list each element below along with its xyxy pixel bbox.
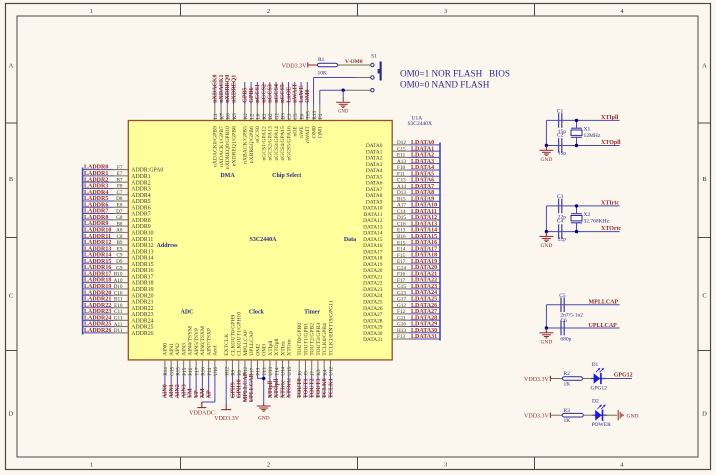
svg-text:L3: L3	[213, 113, 219, 119]
svg-text:LDATA2: LDATA2	[411, 153, 434, 159]
svg-text:ADDR11: ADDR11	[131, 237, 153, 243]
svg-text:DATA6: DATA6	[366, 181, 383, 187]
svg-text:H13: H13	[397, 328, 406, 334]
svg-text:AIN0: AIN0	[163, 343, 169, 356]
svg-text:B16: B16	[397, 234, 406, 240]
svg-text:CLKOUT0/GPH9: CLKOUT0/GPH9	[230, 315, 236, 356]
svg-text:CLKOUT1/GPH10: CLKOUT1/GPH10	[237, 312, 243, 356]
svg-text:A13: A13	[397, 159, 406, 165]
svg-text:D11: D11	[114, 328, 123, 334]
svg-text:T13: T13	[262, 367, 268, 376]
svg-text:nGCS4/GPA15: nGCS4/GPA15	[280, 126, 286, 161]
svg-text:G9: G9	[116, 265, 123, 271]
svg-text:nGCS0: nGCS0	[255, 126, 261, 143]
svg-text:LADDR23: LADDR23	[84, 309, 111, 315]
svg-text:MPLLCAP: MPLLCAP	[243, 372, 249, 402]
svg-text:C13: C13	[397, 178, 406, 184]
svg-text:LDATA5: LDATA5	[411, 171, 434, 177]
svg-text:LADDR20: LADDR20	[84, 290, 111, 296]
svg-text:D: D	[702, 411, 707, 418]
svg-text:ADDR6: ADDR6	[131, 205, 150, 211]
svg-text:nXDACK0/GPB9: nXDACK0/GPB9	[213, 126, 219, 167]
svg-text:J7: J7	[310, 371, 316, 376]
svg-text:C5: C5	[559, 293, 566, 299]
svg-text:LDATA10: LDATA10	[411, 203, 437, 209]
svg-text:LADDR18: LADDR18	[84, 278, 111, 284]
svg-text:DATA23: DATA23	[363, 287, 383, 293]
svg-text:1: 1	[90, 462, 93, 469]
svg-text:nXDREQ0: nXDREQ0	[225, 75, 231, 103]
svg-text:TCLK1/EINT19/GPG11: TCLK1/EINT19/GPG11	[328, 300, 334, 356]
svg-text:LDATA25: LDATA25	[411, 297, 437, 303]
svg-text:E8: E8	[117, 202, 123, 208]
svg-text:DATA11: DATA11	[363, 212, 382, 218]
svg-text:680p: 680p	[560, 336, 571, 342]
svg-text:ADDR7: ADDR7	[131, 212, 150, 218]
svg-text:GPG12: GPG12	[614, 373, 633, 379]
svg-text:nGCS1/GPA12: nGCS1/GPA12	[261, 126, 267, 161]
svg-text:1: 1	[90, 8, 93, 15]
svg-text:TOUT0: TOUT0	[297, 378, 303, 398]
svg-text:GND: GND	[540, 157, 552, 163]
svg-text:LADDR22: LADDR22	[84, 303, 111, 309]
svg-text:C4: C4	[557, 219, 564, 225]
svg-text:LDATA23: LDATA23	[411, 284, 437, 290]
svg-text:R2: R2	[262, 113, 268, 119]
svg-text:LDATA17: LDATA17	[411, 246, 437, 252]
svg-text:E10: E10	[114, 303, 123, 309]
svg-text:DATA24: DATA24	[363, 293, 383, 299]
svg-text:A11: A11	[114, 322, 123, 328]
svg-text:LADDR6: LADDR6	[84, 202, 108, 208]
svg-text:R9: R9	[231, 369, 237, 375]
svg-text:P15: P15	[182, 367, 188, 375]
svg-text:C2: C2	[287, 113, 293, 119]
svg-text:D10: D10	[114, 284, 123, 290]
svg-text:XTIrtc: XTIrtc	[280, 340, 286, 356]
svg-text:LADDR15: LADDR15	[84, 259, 111, 265]
svg-text:G14: G14	[397, 265, 406, 271]
svg-text:XTOrtc: XTOrtc	[601, 226, 622, 232]
svg-text:AIN7/TSXP: AIN7/TSXP	[206, 328, 212, 356]
svg-text:DATA26: DATA26	[363, 306, 383, 312]
svg-text:C: C	[702, 293, 706, 300]
svg-text:TOUT0/GPB0: TOUT0/GPB0	[297, 323, 303, 356]
svg-text:AIN6/TSXM: AIN6/TSXM	[200, 326, 206, 356]
svg-text:nGCS3: nGCS3	[268, 84, 274, 103]
svg-text:F11: F11	[397, 171, 405, 177]
svg-text:XP: XP	[206, 390, 212, 398]
svg-text:D7: D7	[116, 209, 123, 215]
svg-text:C11: C11	[114, 309, 123, 315]
svg-text:TOUT3: TOUT3	[316, 378, 322, 398]
svg-text:TOUT1/GPB1: TOUT1/GPB1	[303, 323, 309, 356]
svg-text:T14: T14	[274, 367, 280, 376]
svg-text:12MHz: 12MHz	[584, 133, 601, 139]
svg-text:F17: F17	[397, 278, 405, 284]
svg-text:GPB5: GPB5	[243, 87, 249, 102]
svg-text:VDDADC: VDDADC	[189, 411, 215, 417]
svg-text:E11: E11	[397, 153, 406, 159]
svg-text:LADDR14: LADDR14	[84, 253, 111, 259]
svg-text:UPLLCAP: UPLLCAP	[249, 331, 255, 356]
svg-text:D2: D2	[592, 399, 599, 405]
svg-text:D8: D8	[116, 196, 123, 202]
svg-text:F16: F16	[397, 272, 405, 278]
svg-text:E17: E17	[397, 259, 406, 265]
svg-text:C2: C2	[557, 133, 564, 139]
svg-text:LDATA19: LDATA19	[411, 259, 437, 265]
svg-text:D9: D9	[116, 259, 123, 265]
svg-text:A: A	[9, 63, 14, 70]
svg-text:nGCS1: nGCS1	[255, 84, 261, 103]
svg-text:LDATA7: LDATA7	[411, 184, 434, 190]
svg-text:Aref: Aref	[212, 345, 219, 355]
svg-text:DATA30: DATA30	[363, 331, 383, 337]
svg-text:LADDR5: LADDR5	[84, 196, 108, 202]
svg-text:DATA25: DATA25	[363, 300, 383, 306]
svg-text:TCLK0: TCLK0	[322, 378, 328, 398]
svg-text:B8: B8	[116, 221, 122, 227]
svg-text:TOUT2: TOUT2	[310, 378, 316, 398]
svg-text:nGCS5/GPA16: nGCS5/GPA16	[286, 126, 292, 161]
svg-text:POWER: POWER	[592, 422, 612, 428]
svg-text:LDATA12: LDATA12	[411, 215, 437, 221]
svg-text:2: 2	[267, 8, 270, 15]
svg-text:YM: YM	[188, 388, 194, 398]
svg-text:R14: R14	[163, 367, 169, 376]
svg-text:nXDREQ1: nXDREQ1	[231, 75, 237, 103]
svg-text:15p: 15p	[558, 151, 567, 157]
svg-text:nWAIT: nWAIT	[305, 126, 311, 143]
svg-text:XTOpll: XTOpll	[274, 378, 280, 398]
svg-text:LDATA1: LDATA1	[411, 146, 434, 152]
svg-text:S3C2440X: S3C2440X	[408, 121, 432, 127]
svg-text:K3: K3	[316, 369, 322, 376]
svg-text:F7: F7	[117, 165, 123, 171]
svg-text:C9: C9	[116, 253, 122, 259]
svg-text:C6: C6	[560, 318, 567, 324]
svg-text:DATA28: DATA28	[363, 318, 383, 324]
svg-text:A10: A10	[114, 278, 123, 284]
svg-text:ADDR9: ADDR9	[131, 224, 150, 230]
svg-text:LADDR0: LADDR0	[84, 165, 108, 171]
svg-text:DATA7: DATA7	[366, 187, 383, 193]
svg-text:nXDACK0: nXDACK0	[213, 74, 219, 102]
svg-text:G8: G8	[116, 215, 123, 221]
svg-text:VDD3.3V: VDD3.3V	[214, 416, 239, 422]
svg-text:G16: G16	[397, 322, 406, 328]
svg-text:LnOE: LnOE	[286, 87, 292, 103]
svg-text:Timer: Timer	[304, 310, 320, 316]
svg-text:B: B	[9, 176, 14, 183]
svg-text:LADDR16: LADDR16	[84, 265, 111, 271]
svg-text:DATA15: DATA15	[363, 237, 383, 243]
svg-text:XTOpll: XTOpll	[601, 140, 621, 146]
svg-text:C16: C16	[397, 221, 406, 227]
svg-text:nOE: nOE	[293, 126, 299, 137]
svg-text:X2: X2	[584, 212, 591, 218]
svg-text:DATA19: DATA19	[363, 262, 383, 268]
svg-text:DATA9: DATA9	[366, 199, 383, 205]
svg-text:ADDR26: ADDR26	[131, 331, 153, 337]
svg-text:OM1: OM1	[318, 126, 324, 138]
svg-text:LADDR2: LADDR2	[84, 177, 108, 183]
svg-text:F8: F8	[117, 184, 123, 190]
svg-text:LDATA0: LDATA0	[411, 140, 434, 146]
svg-text:T15: T15	[306, 111, 312, 120]
svg-text:C1: C1	[557, 109, 564, 115]
svg-text:OM2: OM2	[255, 344, 261, 356]
svg-text:ADDR23: ADDR23	[131, 312, 153, 318]
svg-text:H12: H12	[224, 366, 230, 375]
svg-text:Chip Select: Chip Select	[272, 173, 301, 179]
svg-text:K7: K7	[219, 113, 225, 120]
svg-text:XTIrtc: XTIrtc	[601, 201, 619, 207]
svg-text:L2: L2	[249, 113, 255, 119]
svg-text:LDATA27: LDATA27	[411, 309, 437, 315]
svg-text:B11: B11	[114, 297, 123, 303]
svg-text:ADDR14: ADDR14	[131, 256, 153, 262]
svg-text:GND: GND	[540, 243, 552, 249]
svg-text:DATA18: DATA18	[363, 256, 383, 262]
svg-text:VDD3.3V: VDD3.3V	[524, 414, 549, 420]
svg-text:DATA17: DATA17	[363, 249, 383, 255]
svg-text:ADDR:GPA0: ADDR:GPA0	[131, 168, 163, 174]
svg-text:LDATA29: LDATA29	[411, 322, 437, 328]
svg-text:B9: B9	[116, 240, 122, 246]
svg-text:LDATA26: LDATA26	[411, 303, 437, 309]
svg-text:GPH10: GPH10	[237, 379, 243, 398]
svg-text:TCLK0/GPB4: TCLK0/GPB4	[322, 323, 328, 356]
svg-text:TOUT1: TOUT1	[303, 378, 309, 398]
svg-text:XTOpll: XTOpll	[274, 338, 280, 356]
svg-text:1K: 1K	[564, 418, 571, 424]
svg-text:DATA8: DATA8	[366, 193, 383, 199]
svg-text:G2: G2	[274, 113, 280, 120]
svg-text:D12: D12	[397, 140, 406, 146]
svg-text:XTIpll: XTIpll	[268, 381, 274, 399]
svg-text:D3: D3	[281, 113, 287, 120]
svg-text:L6: L6	[256, 113, 262, 119]
svg-text:LADDR3: LADDR3	[84, 184, 108, 190]
svg-text:R13: R13	[312, 110, 318, 119]
svg-text:LDATA30: LDATA30	[411, 328, 437, 334]
svg-text:U16: U16	[213, 366, 219, 375]
svg-text:LADDR17: LADDR17	[84, 271, 111, 277]
svg-text:DATA0: DATA0	[366, 143, 383, 149]
svg-text:LADDR19: LADDR19	[84, 284, 111, 290]
svg-text:3: 3	[444, 8, 447, 15]
svg-text:B2: B2	[268, 113, 274, 119]
svg-text:E14: E14	[397, 247, 406, 253]
svg-text:AIN3: AIN3	[181, 384, 187, 398]
svg-text:E15: E15	[397, 240, 406, 246]
svg-text:OM0: OM0	[305, 89, 311, 102]
svg-text:G11: G11	[114, 316, 123, 322]
svg-text:R15: R15	[176, 367, 182, 376]
svg-text:XTOrtc: XTOrtc	[287, 338, 293, 356]
svg-text:LDATA4: LDATA4	[411, 165, 434, 171]
svg-text:GND: GND	[540, 339, 552, 345]
svg-text:10K: 10K	[318, 71, 328, 77]
svg-text:R3: R3	[564, 408, 571, 414]
svg-text:AIN5/TSYP: AIN5/TSYP	[194, 328, 200, 356]
svg-text:1K: 1K	[564, 382, 571, 388]
svg-text:LADDR11: LADDR11	[84, 234, 111, 240]
svg-text:XTIpll: XTIpll	[601, 115, 619, 121]
svg-text:P13: P13	[256, 367, 262, 375]
svg-text:nXBREQ/GPB6: nXBREQ/GPB6	[249, 126, 255, 163]
svg-text:nWE: nWE	[299, 126, 305, 138]
svg-text:K6: K6	[226, 113, 232, 120]
svg-text:LADDR24: LADDR24	[84, 315, 111, 321]
svg-text:LDATA14: LDATA14	[411, 228, 437, 234]
svg-text:XTIpll: XTIpll	[268, 340, 274, 356]
svg-text:A14: A14	[397, 184, 406, 190]
svg-text:DATA13: DATA13	[363, 224, 383, 230]
svg-text:LDATA11: LDATA11	[411, 209, 437, 215]
svg-text:LDATA13: LDATA13	[411, 221, 437, 227]
svg-text:nWAIT: nWAIT	[293, 83, 299, 102]
svg-text:F13: F13	[397, 334, 405, 340]
svg-text:ADDR17: ADDR17	[131, 274, 153, 280]
svg-text:LADDR21: LADDR21	[84, 297, 111, 303]
svg-text:ADDR18: ADDR18	[131, 281, 153, 287]
svg-text:LADDR13: LADDR13	[84, 246, 111, 252]
svg-text:AIN1: AIN1	[169, 384, 175, 398]
svg-text:K4: K4	[322, 369, 328, 376]
svg-text:G12: G12	[397, 303, 406, 309]
svg-text:LADDR1: LADDR1	[84, 171, 108, 177]
svg-text:GND: GND	[258, 415, 270, 421]
svg-text:LDATA9: LDATA9	[411, 196, 434, 202]
svg-text:nGCS2: nGCS2	[261, 84, 267, 103]
svg-text:DATA12: DATA12	[363, 218, 383, 224]
svg-text:LDATA3: LDATA3	[411, 159, 434, 165]
svg-text:A: A	[702, 63, 707, 70]
svg-text:G15: G15	[397, 284, 406, 290]
svg-text:Address: Address	[157, 243, 179, 249]
svg-text:G13: G13	[397, 290, 406, 296]
svg-text:E6: E6	[299, 113, 305, 119]
svg-text:DATA4: DATA4	[366, 168, 383, 174]
svg-text:LADDR26: LADDR26	[84, 328, 111, 334]
svg-text:nGCS3/GPA14: nGCS3/GPA14	[274, 126, 280, 161]
svg-text:AIN0: AIN0	[163, 384, 169, 398]
svg-text:LDATA8: LDATA8	[411, 190, 434, 196]
svg-text:GPG12: GPG12	[591, 385, 608, 391]
svg-text:R1: R1	[318, 57, 325, 63]
svg-text:C14: C14	[397, 209, 406, 215]
svg-text:MPLLCAP: MPLLCAP	[243, 330, 249, 356]
svg-text:XTIrtc: XTIrtc	[280, 380, 286, 398]
svg-text:OM3: OM3	[262, 344, 268, 356]
svg-text:3: 3	[444, 462, 447, 469]
svg-text:GND: GND	[338, 110, 349, 115]
svg-text:ADDR25: ADDR25	[131, 325, 153, 331]
svg-text:AIN2: AIN2	[175, 384, 181, 398]
svg-text:LDATA28: LDATA28	[411, 315, 437, 321]
svg-text:GPB6: GPB6	[249, 87, 255, 102]
svg-text:ADDR16: ADDR16	[131, 268, 153, 274]
svg-text:A8: A8	[116, 228, 123, 234]
svg-text:R2: R2	[564, 371, 571, 377]
svg-text:DATA10: DATA10	[363, 206, 383, 212]
svg-text:X1: X1	[584, 127, 591, 133]
svg-text:C10: C10	[114, 290, 123, 296]
svg-text:ADDR1: ADDR1	[131, 174, 150, 180]
svg-text:AIN2: AIN2	[175, 343, 181, 356]
svg-text:F12: F12	[397, 309, 405, 315]
svg-text:S3C2440A: S3C2440A	[249, 237, 277, 243]
svg-text:ADDR15: ADDR15	[131, 262, 153, 268]
svg-text:DATA2: DATA2	[366, 156, 383, 162]
svg-text:E7: E7	[117, 171, 123, 177]
svg-text:LDATA6: LDATA6	[411, 178, 434, 184]
svg-text:LADDR12: LADDR12	[84, 240, 111, 246]
svg-text:C15: C15	[397, 146, 406, 152]
svg-text:C8: C8	[116, 234, 122, 240]
svg-text:ADC: ADC	[181, 310, 194, 316]
svg-text:U12: U12	[329, 366, 335, 375]
svg-text:K5: K5	[232, 113, 238, 120]
svg-text:U13: U13	[268, 366, 274, 375]
svg-text:A17: A17	[397, 203, 406, 209]
svg-text:32.768KHz: 32.768KHz	[584, 219, 610, 225]
svg-text:D: D	[9, 411, 14, 418]
svg-text:G11: G11	[397, 315, 406, 321]
svg-text:B10: B10	[114, 272, 123, 278]
svg-text:P14: P14	[207, 367, 213, 375]
svg-text:BIOS: BIOS	[489, 68, 510, 78]
svg-text:DATA16: DATA16	[363, 243, 383, 249]
svg-text:J5: J5	[304, 371, 310, 376]
svg-text:OM0: OM0	[311, 126, 317, 138]
svg-text:DATA27: DATA27	[363, 312, 383, 318]
svg-text:ADDR8: ADDR8	[131, 218, 150, 224]
svg-text:B: B	[702, 176, 707, 183]
svg-text:DATA3: DATA3	[366, 162, 383, 168]
svg-text:E9: E9	[117, 246, 123, 252]
svg-text:AIN4/TSYM: AIN4/TSYM	[188, 326, 194, 356]
svg-text:DATA1: DATA1	[366, 149, 383, 155]
svg-text:V-OM0: V-OM0	[345, 59, 363, 65]
svg-text:nXDREQ0/GPB10: nXDREQ0/GPB10	[225, 126, 231, 169]
svg-text:nGCS2/GPA13: nGCS2/GPA13	[268, 126, 274, 161]
svg-text:TOUT3/GPB3: TOUT3/GPB3	[316, 323, 322, 356]
svg-text:XTOrtc: XTOrtc	[287, 378, 293, 399]
svg-text:C5: C5	[293, 113, 299, 119]
svg-text:ADDR3: ADDR3	[131, 187, 150, 193]
svg-text:C: C	[9, 293, 13, 300]
svg-text:LDATA20: LDATA20	[411, 265, 437, 271]
svg-text:LADDR4: LADDR4	[84, 190, 108, 196]
svg-text:DMA: DMA	[220, 173, 235, 179]
svg-text:LDATA21: LDATA21	[411, 271, 437, 277]
svg-text:F4: F4	[318, 114, 324, 120]
svg-text:F15: F15	[397, 253, 405, 259]
svg-text:ADDR19: ADDR19	[131, 287, 153, 293]
svg-text:K2: K2	[243, 113, 249, 120]
svg-text:ADDR24: ADDR24	[131, 318, 153, 324]
svg-text:DATA29: DATA29	[363, 325, 383, 331]
svg-text:LADDR10: LADDR10	[84, 228, 111, 234]
svg-text:Clock: Clock	[249, 310, 265, 316]
svg-text:B7: B7	[116, 177, 122, 183]
svg-text:LADDR8: LADDR8	[84, 215, 108, 221]
svg-text:DATA31: DATA31	[363, 337, 383, 343]
